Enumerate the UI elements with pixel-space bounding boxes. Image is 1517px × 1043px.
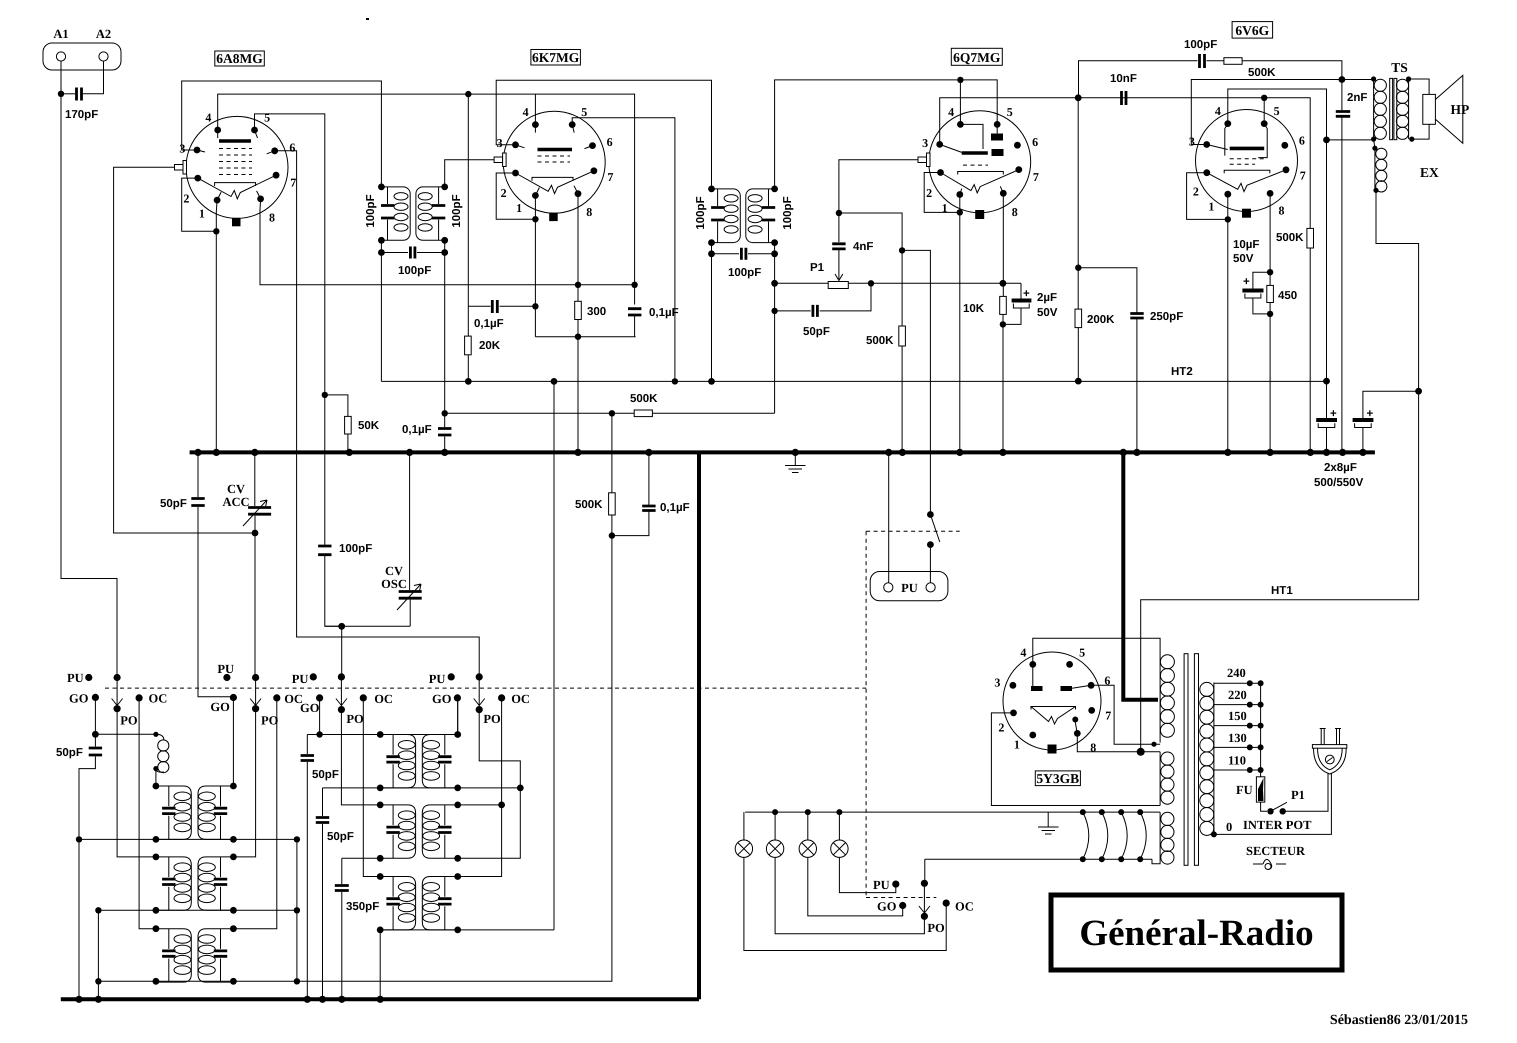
- capacitor 0,1uF (6K7 screen-cathode): [492, 300, 497, 313]
- wire osc row2 bottom rail with 350pF drop: [342, 858, 380, 999]
- svg-text:100pF: 100pF: [339, 543, 372, 555]
- resistor 500K AF: [899, 326, 906, 346]
- resistor 500K AVC filter: [609, 493, 616, 515]
- resistor 200K: [1075, 309, 1082, 328]
- svg-text:2: 2: [1193, 185, 1199, 199]
- IF transformer 2 left unit with 100pF: [711, 189, 740, 243]
- wire 6A8 pin1 down to ground bus: [215, 200, 218, 452]
- svg-text:5: 5: [1079, 645, 1085, 659]
- capacitor 100pF: [1200, 54, 1205, 68]
- capacitor 170pF: [77, 88, 82, 101]
- wire 5Y3 pin2 to 5V winding bottom: [991, 713, 1160, 806]
- dial lamps: [735, 840, 752, 857]
- svg-text:PO: PO: [120, 714, 138, 728]
- wire jog to 50K: [325, 395, 348, 453]
- svg-text:50pF: 50pF: [56, 747, 83, 759]
- resistor 500K AVC: [634, 410, 652, 417]
- svg-text:A2: A2: [96, 27, 111, 41]
- svg-text:8: 8: [269, 210, 275, 224]
- svg-text:8: 8: [1090, 740, 1096, 754]
- ground symbol on heater rail: [1038, 812, 1059, 834]
- svg-text:350pF: 350pF: [346, 901, 379, 913]
- svg-text:500K: 500K: [630, 393, 658, 405]
- wire 6V6 cathode pin8 down: [1269, 193, 1271, 452]
- coil osc row3 R: [422, 877, 457, 930]
- svg-text:50pF: 50pF: [160, 498, 187, 510]
- svg-text:HT1: HT1: [1271, 585, 1293, 597]
- svg-text:OC: OC: [374, 692, 393, 706]
- node screen rail junctions: [465, 91, 471, 97]
- svg-text:500K: 500K: [1248, 67, 1276, 79]
- svg-text:HT2: HT2: [1171, 366, 1193, 378]
- transformer primary winding: [1213, 683, 1215, 836]
- svg-text:500K: 500K: [866, 335, 894, 347]
- node plate line junctions: [1075, 94, 1082, 101]
- wire P1 right rail to cathode node: [848, 282, 1021, 284]
- svg-text:CV: CV: [385, 564, 403, 578]
- lamp stems to rail: [744, 812, 840, 840]
- node osc 50K tap: [322, 392, 328, 398]
- capacitor 10nF: [1122, 91, 1127, 105]
- wire screen dropper: x468 down through 20K to HT2: [468, 94, 535, 381]
- node pin1 junction: [213, 228, 219, 234]
- svg-text:500/550V: 500/550V: [1314, 477, 1364, 489]
- grid cap stub 6K7: [494, 157, 503, 163]
- nodes osc bank: [377, 731, 384, 738]
- wire IF1 secondary to 6K7 grid: [445, 160, 494, 187]
- svg-text:CV: CV: [227, 482, 245, 496]
- svg-text:6: 6: [607, 135, 613, 149]
- tube 6V6G envelope: [1196, 110, 1298, 212]
- resistor 300: [575, 301, 582, 319]
- wire PO1 to row2 top: [117, 709, 156, 857]
- ground bus (thick): [190, 450, 1375, 454]
- svg-text:50V: 50V: [1233, 253, 1254, 265]
- svg-text:2: 2: [501, 186, 507, 200]
- node HT1 takeoff at 5Y3 filament: [1137, 748, 1145, 756]
- tube 6V6G pins: [1224, 120, 1231, 127]
- primary taps: [1214, 683, 1261, 770]
- svg-text:GO: GO: [69, 692, 89, 706]
- svg-text:PO: PO: [927, 921, 945, 935]
- svg-text:100pF: 100pF: [451, 194, 463, 227]
- wire 6K7 pin4 to screen rail: [534, 94, 536, 125]
- svg-text:OC: OC: [511, 692, 530, 706]
- jack PU: [870, 572, 948, 601]
- svg-text:1: 1: [1014, 737, 1020, 751]
- tube 5Y3GB pins: [1029, 661, 1036, 668]
- wire row2 bottom rail: [98, 910, 297, 999]
- capacitor 2nF: [1341, 80, 1343, 453]
- svg-text:2: 2: [998, 720, 1004, 734]
- svg-text:10µF: 10µF: [1233, 239, 1259, 251]
- wire 6V6 screen pin4 to HT2 node: [1228, 89, 1374, 381]
- svg-text:OC: OC: [955, 900, 974, 914]
- wire GO2 down to row1 R top: [232, 698, 234, 787]
- svg-text:100pF: 100pF: [1184, 39, 1217, 51]
- wire 6Q7 plate pin3 up to AF line: [940, 98, 1310, 453]
- svg-text:4: 4: [205, 110, 211, 124]
- capacitor 10uF electrolytic: [1253, 272, 1270, 314]
- wire PU jack left from bus: [888, 452, 890, 582]
- svg-text:300: 300: [587, 306, 606, 318]
- tube 5Y3GB label box: [1035, 771, 1080, 786]
- field coil EX: [1374, 139, 1375, 148]
- svg-text:Sébastien86 23/01/2015: Sébastien86 23/01/2015: [1330, 1013, 1468, 1028]
- svg-text:240: 240: [1227, 666, 1246, 680]
- svg-text:100pF: 100pF: [365, 194, 377, 227]
- svg-text:8: 8: [1279, 204, 1285, 218]
- tube 6K7MG envelope: [503, 111, 605, 213]
- wire 0 tap to plug: [1214, 773, 1332, 835]
- tube 6V6G label box: [1232, 22, 1273, 38]
- svg-text:20K: 20K: [479, 340, 501, 352]
- wire 6K7 pin5 screen to HT2: [572, 118, 675, 382]
- svg-text:6Q7MG: 6Q7MG: [953, 50, 1001, 65]
- capacitor 2x8uF left: [1326, 381, 1328, 452]
- coil antenna row2 R: [198, 857, 233, 910]
- wire IF1 primary bottom to HT2: [380, 253, 382, 382]
- wire 5Y3 pin6 to HV winding bottom: [1091, 685, 1160, 744]
- svg-text:3: 3: [994, 675, 1000, 689]
- svg-text:OC: OC: [149, 692, 168, 706]
- tube 6Q7MG label box: [951, 48, 1002, 65]
- tube 6Q7MG internals: diode plates, anode, grid, cathode, heater: [991, 134, 1003, 141]
- svg-text:0,1µF: 0,1µF: [402, 424, 432, 436]
- wire 6K7 heater pin2 frame: [496, 173, 535, 219]
- tube 6K7MG label box: [531, 50, 581, 66]
- svg-text:4: 4: [1215, 104, 1221, 118]
- wire right return x297: [296, 839, 298, 981]
- resistor 500K series: [1224, 58, 1242, 65]
- transformer TS primary winding: [1373, 79, 1375, 139]
- capacitor 50pF across P1: [775, 283, 871, 311]
- svg-text:4: 4: [1020, 645, 1026, 659]
- coil antenna row1 R: [198, 786, 233, 839]
- svg-text:5Y3GB: 5Y3GB: [1036, 771, 1079, 786]
- coil osc row3 L: [380, 877, 415, 930]
- svg-text:110: 110: [1228, 754, 1246, 768]
- thick wire ground bus to HV center tap: [1123, 452, 1158, 699]
- svg-text:Général-Radio: Général-Radio: [1079, 913, 1313, 954]
- wire 5Y3 filament pin8 to HT1 node and 5V winding: [1077, 733, 1160, 751]
- svg-text:INTER POT: INTER POT: [1243, 818, 1312, 832]
- svg-text:ACC: ACC: [222, 495, 249, 509]
- svg-text:1: 1: [516, 201, 522, 215]
- svg-text:3: 3: [922, 136, 928, 150]
- svg-text:250pF: 250pF: [1150, 311, 1183, 323]
- wire osc row1 top rail with 50pF drop: [307, 698, 457, 735]
- wire osc row2 top rail from PO3: [341, 710, 380, 805]
- wire GO4 to osc row1 R top: [457, 698, 459, 735]
- svg-text:PU: PU: [292, 672, 309, 686]
- selector line with fuse FU: [1261, 683, 1267, 811]
- svg-text:+: +: [1330, 408, 1337, 420]
- wire osc row1 bottom rail with 50pF drop: [323, 788, 458, 999]
- svg-text:0,1µF: 0,1µF: [649, 307, 679, 319]
- svg-text:7: 7: [290, 175, 296, 189]
- svg-text:150: 150: [1228, 709, 1247, 723]
- svg-text:PU: PU: [429, 672, 446, 686]
- resistor 50K: [345, 416, 352, 434]
- svg-text:+: +: [1243, 276, 1250, 288]
- wire small antenna coil L1: [95, 733, 155, 735]
- transformer core: [1184, 654, 1188, 866]
- wire junction to 500K AF: [839, 213, 902, 452]
- svg-text:100pF: 100pF: [398, 265, 431, 277]
- svg-text:6K7MG: 6K7MG: [532, 50, 580, 65]
- svg-text:+: +: [1367, 408, 1374, 420]
- wire 6K7 plate pin3 to IF2 primary top: [496, 80, 711, 189]
- wire 6K7 pin1 down to cathode network: [534, 196, 536, 337]
- capacitor 0,1uF AVC to ground: [612, 452, 649, 535]
- svg-text:2: 2: [183, 191, 189, 205]
- tube 5Y3GB internals: diode anodes and filament: [1031, 686, 1043, 691]
- switch lamp selector: [924, 859, 926, 883]
- svg-text:1: 1: [199, 206, 205, 220]
- wire AF coupling 100pF + 500K to 6V6: [1079, 61, 1342, 98]
- svg-text:100pF: 100pF: [782, 196, 794, 229]
- svg-text:4: 4: [523, 105, 529, 119]
- svg-text:P1: P1: [810, 262, 825, 274]
- dashed switch linkage: [105, 687, 866, 689]
- lamp return wires to band selector: [839, 857, 895, 892]
- svg-text:10nF: 10nF: [1110, 73, 1137, 85]
- wire IF1 secondary bottom to AVC line, 0.1uF to bus: [444, 253, 446, 453]
- capacitor 50pF on GO2 feed: [197, 452, 199, 497]
- resistor 500K 6V6 grid leak: [1307, 228, 1314, 248]
- wire 6A8 pin6 to S4 pole: [275, 151, 480, 677]
- transformer TS secondary winding: [1408, 79, 1410, 139]
- antenna terminal plate A1 A2: [43, 43, 121, 70]
- capacitor 2x8uF right: [1363, 391, 1419, 452]
- capacitor 0,1uF cathode bypass: [628, 309, 641, 315]
- wire 6A8 osc anode pin5 via x324 down: [255, 114, 342, 626]
- svg-text:130: 130: [1228, 731, 1247, 745]
- svg-text:1: 1: [1208, 200, 1214, 214]
- tube 6A8MG envelope: [186, 116, 288, 218]
- node cathode rail junctions: [575, 282, 581, 288]
- wire A2 stem: [83, 61, 104, 94]
- wire OC1 to row3 top: [139, 698, 156, 929]
- coil osc row1 L: [380, 735, 415, 788]
- heater rail top: [745, 811, 1160, 813]
- node AVC top: [442, 410, 448, 416]
- grid cap stub 6A8: [175, 165, 184, 171]
- wire 6Q7 cathode pin8 through 10K to bus: [1002, 193, 1004, 452]
- wire HT1 riser: [1141, 391, 1419, 752]
- wire 6V6 heater pin2 frame pin1 to bus: [1187, 173, 1228, 453]
- coil osc row1 R: [422, 735, 457, 788]
- wire 6Q7 grid to 4nF / volume pot: [839, 160, 918, 213]
- mains plug: [1321, 729, 1339, 745]
- logo box Général-Radio: [1051, 895, 1342, 970]
- speaker HP: [1409, 79, 1430, 139]
- svg-text:50V: 50V: [1037, 307, 1058, 319]
- heater winding links (arcs): [1080, 809, 1086, 815]
- capacitor 2uF electrolytic: [1003, 283, 1021, 324]
- wire 6V6 plate pin3 to TS primary top: [1191, 80, 1373, 145]
- svg-text:3: 3: [179, 141, 185, 155]
- svg-text:EX: EX: [1420, 165, 1439, 180]
- tube 6K7MG pins: [532, 121, 539, 128]
- wire switch to plug: [1283, 773, 1328, 811]
- svg-text:500K: 500K: [575, 499, 603, 511]
- svg-text:8: 8: [586, 205, 592, 219]
- svg-text:2nF: 2nF: [1347, 92, 1367, 104]
- capacitor 100pF osc coupling: [318, 546, 331, 555]
- svg-text:4nF: 4nF: [853, 241, 873, 253]
- svg-text:SECTEUR: SECTEUR: [1246, 844, 1306, 858]
- wire 200K branch and 250pF: [1077, 98, 1079, 381]
- svg-text:5: 5: [1007, 105, 1013, 119]
- coil antenna row3 R: [198, 929, 233, 982]
- svg-text:0,1µF: 0,1µF: [474, 318, 504, 330]
- tube 6A8MG label box: [215, 51, 264, 66]
- transformer 6.3V winding: [1152, 812, 1160, 864]
- nodes on HT2: [465, 378, 472, 385]
- svg-text:5: 5: [1274, 104, 1280, 118]
- svg-text:8: 8: [1012, 205, 1018, 219]
- wire cathode network bottom rail: [535, 336, 635, 338]
- nodes IF2: [708, 186, 715, 193]
- svg-text:50K: 50K: [358, 420, 380, 432]
- nodes on ground line: [75, 996, 82, 1003]
- wire 5Y3 pin4 to HV winding top: [1033, 638, 1160, 664]
- wire 6A8 heater pin2 frame: [182, 178, 217, 231]
- node A1 junction: [58, 91, 64, 97]
- tube 6Q7MG pins: [957, 121, 964, 128]
- svg-text:PU: PU: [217, 662, 234, 676]
- svg-text:200K: 200K: [1087, 314, 1115, 326]
- svg-text:50pF: 50pF: [803, 326, 830, 338]
- svg-text:6A8MG: 6A8MG: [216, 51, 263, 66]
- wire osc row3 bottom rail to HT2: [380, 381, 554, 930]
- svg-text:PO: PO: [261, 714, 279, 728]
- wire row1 bottom rail: [79, 838, 297, 840]
- svg-text:GO: GO: [300, 701, 320, 715]
- svg-text:7: 7: [607, 170, 613, 184]
- resistor 10K: [1000, 296, 1007, 314]
- tube 6V6G internals: [1230, 147, 1265, 151]
- tube 6A8MG pins: [214, 127, 221, 134]
- nodes antenna bank: [153, 783, 160, 790]
- svg-text:220: 220: [1228, 688, 1247, 702]
- wire osc row3 L bottom to ground line: [379, 930, 381, 999]
- wire PU switch from AF node: [927, 511, 934, 518]
- tube 6Q7MG envelope: [929, 111, 1031, 213]
- svg-text:PO: PO: [346, 712, 364, 726]
- stray mark top: [366, 18, 369, 20]
- fuse FU: [1256, 777, 1264, 802]
- svg-text:10K: 10K: [963, 303, 985, 315]
- svg-text:7: 7: [1033, 170, 1039, 184]
- potentiometer P1: [828, 282, 848, 289]
- svg-text:FU: FU: [1236, 783, 1253, 797]
- svg-text:OSC: OSC: [381, 577, 407, 591]
- wire L1 to row1: [155, 769, 157, 786]
- IF transformer 2 right unit with 100pF: [746, 189, 775, 243]
- wire 6K7 pin8 down through 300 ohm: [577, 194, 579, 453]
- svg-text:+: +: [1023, 288, 1030, 300]
- coil osc row2 L: [380, 805, 415, 858]
- IF transformer 1 right unit (secondary) with 100pF: [416, 187, 445, 240]
- svg-text:50pF: 50pF: [327, 831, 354, 843]
- svg-text:4: 4: [948, 105, 954, 119]
- heater rail bottom (to lamp switch): [925, 858, 1152, 860]
- capacitor 0,1uF on bus: [438, 429, 451, 436]
- svg-text:50pF: 50pF: [312, 769, 339, 781]
- svg-text:2: 2: [926, 186, 932, 200]
- svg-text:PU: PU: [67, 671, 84, 685]
- node 0.1uF-pin1 junction: [532, 303, 538, 309]
- capacitor CV OSC (variable): [409, 452, 411, 590]
- node diode pin4 branch: [957, 77, 963, 83]
- svg-text:7: 7: [1105, 708, 1111, 722]
- IF transformer 1 left unit (primary) with 100pF: [381, 187, 410, 240]
- nodes on ground bus: [194, 449, 201, 456]
- node AF takeoff: [899, 247, 905, 253]
- wire OC4 link to osc row2 top and row3 top: [458, 698, 502, 877]
- wire 6A8 grid to CV ACC node: [114, 167, 255, 533]
- svg-text:100pF: 100pF: [728, 267, 761, 279]
- ground return box (thick): [61, 452, 699, 999]
- svg-text:0: 0: [1226, 820, 1232, 834]
- capacitor 250pF: [1130, 314, 1143, 319]
- wire IF2 secondary bottom down to AVC: [774, 254, 776, 413]
- wire PO4 link to osc row1/row2 bottoms: [458, 710, 521, 859]
- svg-text:6: 6: [289, 140, 295, 154]
- wire 6A8 pin8 cathode rail y284.8: [260, 199, 635, 285]
- resistor 20K: [465, 336, 472, 355]
- svg-text:0,1µF: 0,1µF: [660, 502, 690, 514]
- svg-text:TS: TS: [1391, 60, 1408, 75]
- node 4nF junction: [836, 210, 842, 216]
- svg-text:6V6G: 6V6G: [1235, 23, 1269, 38]
- wire IF2 secondary top to 6Q7 diode plates: [775, 80, 998, 189]
- wire PO2 down to row2 R top: [233, 709, 255, 857]
- svg-text:2µF: 2µF: [1037, 292, 1057, 304]
- nodes IF1: [378, 184, 385, 191]
- svg-text:500K: 500K: [1276, 232, 1304, 244]
- wire A1 down to band switch S1 pole: [61, 94, 117, 678]
- wire AF to PU switch: [902, 250, 930, 514]
- coil antenna row1 L: [156, 786, 191, 839]
- tube 6A8MG internals: anode bar, grids, cathode, heater: [219, 139, 251, 143]
- transformer TS core: [1390, 78, 1393, 139]
- svg-text:3: 3: [497, 136, 503, 150]
- svg-text:PO: PO: [483, 712, 501, 726]
- grid cap stub 6Q7: [918, 157, 927, 163]
- coil antenna row3 L: [156, 929, 191, 982]
- wire 4nF to P1 wiper with arrow: [838, 249, 840, 279]
- wire OC2 down to row3 R top: [233, 698, 276, 929]
- resistor 450: [1267, 285, 1274, 302]
- svg-text:P1: P1: [1291, 788, 1305, 802]
- wire AVC bus down with 500K: [98, 413, 612, 981]
- line AVC 500K: [445, 412, 775, 414]
- svg-text:GO: GO: [432, 692, 452, 706]
- wire IF2 primary bottom to HT2: [711, 254, 713, 382]
- wire 6Q7 heater pin2 frame and pin1 to bus: [924, 173, 960, 453]
- capacitor 100pF IF2 coupling: [712, 243, 775, 254]
- svg-text:PU: PU: [873, 878, 890, 892]
- switch P1 mains: [1267, 808, 1273, 814]
- svg-text:5: 5: [581, 105, 587, 119]
- wire P1 left to IF2 secondary bottom line: [775, 282, 829, 284]
- svg-text:6: 6: [1032, 135, 1038, 149]
- wire screen rail y94: pin4 up, to 0.1uF at 634: [218, 94, 635, 337]
